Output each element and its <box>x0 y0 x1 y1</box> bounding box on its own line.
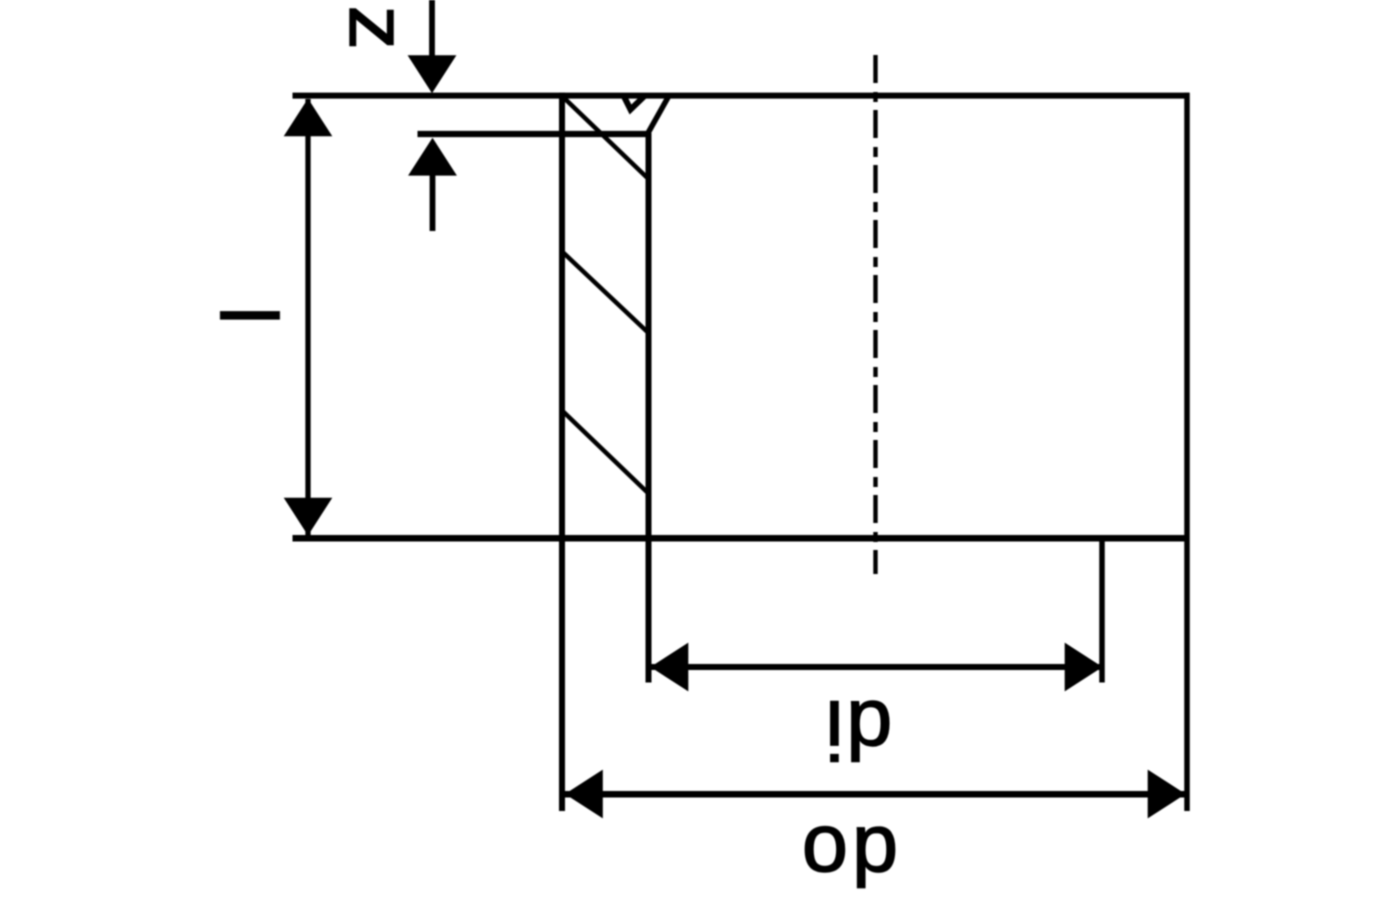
dimension line do <box>565 791 1186 798</box>
arrowhead do left <box>565 770 603 819</box>
z upper arrowhead <box>408 55 457 93</box>
hatch line 2 <box>561 251 649 334</box>
inner wall line + di extension <box>646 133 652 683</box>
hatch line 3 <box>561 410 649 494</box>
socket depth step line <box>418 131 651 137</box>
arrowhead di left <box>651 643 689 692</box>
left wall outer line + do extension <box>559 93 565 811</box>
dimension line l <box>305 99 310 535</box>
svg-text:z: z <box>332 5 423 50</box>
dimension line di <box>651 664 1102 670</box>
v notch at socket mouth <box>624 96 646 110</box>
z lower arrowhead <box>408 138 457 176</box>
arrowhead l bottom <box>284 498 333 536</box>
right wall line + do extension <box>1184 93 1190 811</box>
svg-text:do: do <box>798 810 898 900</box>
z upper arrow shaft <box>429 0 435 56</box>
arrowhead do right <box>1148 770 1186 819</box>
body bottom edge <box>293 535 1190 542</box>
centerline axis <box>873 55 877 574</box>
chamfer line <box>648 97 668 133</box>
arrowhead l top <box>284 99 333 137</box>
di right extension line <box>1099 536 1105 683</box>
svg-text:di: di <box>823 684 893 777</box>
hatch line 1 <box>562 96 649 179</box>
body top edge <box>293 93 1190 99</box>
z lower arrow shaft <box>430 175 436 231</box>
arrowhead di right <box>1065 643 1103 692</box>
svg-text:l: l <box>203 306 293 324</box>
